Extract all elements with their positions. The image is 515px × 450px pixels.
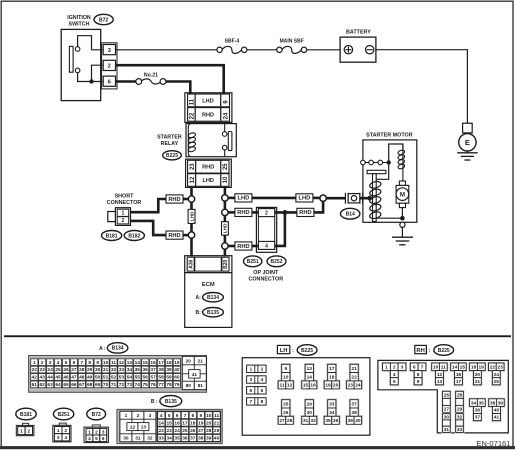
svg-text:4: 4 [57, 360, 60, 366]
connector oval B14 [341, 208, 360, 219]
svg-text:14: 14 [159, 420, 165, 426]
svg-text:24: 24 [494, 372, 500, 378]
RH pins 34-37 cluster [469, 398, 487, 422]
svg-text:5: 5 [95, 436, 98, 442]
svg-text:38: 38 [198, 436, 204, 442]
svg-text:RHD: RHD [168, 233, 180, 239]
svg-text:B252: B252 [271, 259, 283, 265]
RH pins 18-21 cluster [469, 362, 487, 386]
ignition connector housing [102, 43, 117, 89]
svg-text:74: 74 [135, 382, 141, 388]
wire: battery to ground point E [376, 50, 468, 124]
ECM connector strip [185, 256, 232, 273]
svg-text:13: 13 [437, 379, 443, 385]
svg-text:16: 16 [310, 383, 316, 389]
wire: lower RHD tag to junction [183, 234, 189, 237]
svg-text:B20: B20 [223, 260, 229, 269]
svg-text:7: 7 [249, 399, 252, 405]
LHD tag row1 left [235, 194, 252, 202]
pin 2 [103, 60, 115, 70]
wire: short conn pin2 to lower RHD (thick) [131, 221, 168, 235]
ground symbol under starter [392, 237, 413, 245]
junction circle A36 wire lower [188, 232, 194, 238]
svg-text:12: 12 [287, 383, 293, 389]
connector view label RH B225 [415, 345, 454, 356]
svg-text:31: 31 [444, 427, 450, 433]
ground point E [459, 134, 476, 151]
svg-text:44: 44 [47, 375, 53, 381]
wire: MAIN SBF to battery [307, 49, 340, 51]
wire: merge junction to B14 (thick) [326, 197, 346, 200]
svg-text:10: 10 [433, 365, 439, 371]
svg-text:STARTER MOTOR: STARTER MOTOR [366, 133, 413, 139]
svg-text:21: 21 [198, 358, 204, 364]
svg-text:28: 28 [206, 428, 212, 434]
svg-text:17: 17 [329, 366, 335, 372]
svg-text:25: 25 [182, 428, 188, 434]
relay RHD cell upper [195, 108, 221, 122]
svg-text:14: 14 [452, 365, 458, 371]
svg-text:21: 21 [351, 366, 357, 372]
svg-text:80: 80 [186, 383, 192, 389]
svg-text:5: 5 [249, 388, 252, 394]
svg-text:34: 34 [329, 410, 335, 416]
svg-text:29: 29 [307, 402, 313, 408]
connector view label B B135 [151, 396, 182, 407]
svg-text:22: 22 [159, 428, 165, 434]
svg-text:23: 23 [348, 383, 354, 389]
svg-text:25: 25 [55, 367, 61, 373]
RH pins 26-27 strip [442, 390, 452, 413]
LH pins 25-28 cluster [277, 399, 295, 425]
svg-text:29: 29 [87, 367, 93, 373]
svg-text:59: 59 [166, 375, 172, 381]
RHD tag row2 right [297, 208, 314, 216]
connector grid A B134 [29, 356, 207, 393]
svg-text:12: 12 [130, 424, 136, 430]
svg-text:11: 11 [441, 365, 446, 371]
connector oval B181 bottom [16, 408, 36, 420]
starter return spring [369, 180, 382, 219]
RH pins 30-31 strip [442, 413, 452, 434]
svg-text:2: 2 [137, 413, 140, 419]
wire: OP pin2 to RHD tag row2 right (thick) [275, 211, 298, 214]
connector view LH B225 body [242, 358, 370, 436]
svg-text:38: 38 [351, 410, 357, 416]
svg-text:20: 20 [206, 420, 212, 426]
RHD tag row2 left [235, 208, 252, 216]
wire: junction to plunger bottom [375, 217, 403, 219]
svg-text:B134: B134 [112, 346, 124, 352]
svg-text:15: 15 [143, 360, 149, 366]
ECM strip middle box [195, 257, 222, 271]
svg-text:LHD: LHD [299, 196, 311, 202]
svg-text:MAIN SBF: MAIN SBF [280, 38, 304, 44]
LH pins 21-24 cluster [345, 363, 363, 389]
svg-text:RHD: RHD [168, 197, 180, 203]
OP joint connector label [248, 270, 283, 283]
svg-text:1: 1 [249, 367, 252, 373]
LH pins 3-4 [247, 376, 267, 383]
svg-text:47: 47 [71, 375, 77, 381]
svg-text:13: 13 [307, 366, 313, 372]
wire: RHD tag2 up to merge junction [314, 201, 323, 212]
wire: RHD tag to OP joint pin 4 [252, 245, 259, 248]
svg-text:31: 31 [135, 436, 141, 442]
svg-text:56: 56 [143, 375, 149, 381]
svg-text:55: 55 [135, 375, 141, 381]
connector view B251 [53, 423, 71, 442]
svg-text:68: 68 [87, 382, 93, 388]
svg-text:RELAY: RELAY [161, 141, 179, 147]
wire: row3 junction to RHD tag (thick) [228, 245, 236, 248]
svg-text:15: 15 [167, 420, 173, 426]
connector oval B181 [102, 231, 122, 241]
svg-text:46: 46 [63, 375, 69, 381]
wire: B14 into starter (thick) [360, 197, 369, 200]
junction in ignition switch [89, 79, 93, 83]
fuse No.21 [136, 73, 166, 85]
svg-text:19: 19 [198, 420, 204, 426]
svg-text:79: 79 [174, 382, 180, 388]
svg-text:2: 2 [108, 64, 111, 70]
junction dot inside starter [367, 196, 372, 201]
RHD tag upper-left [166, 195, 183, 203]
svg-text:28: 28 [457, 393, 463, 399]
svg-text:69: 69 [95, 382, 101, 388]
svg-text:24: 24 [355, 383, 361, 389]
connector view RH B225 body (L-shape) [378, 360, 508, 433]
svg-text:LHD: LHD [202, 178, 214, 184]
svg-text:A :: A : [99, 346, 106, 352]
svg-text:6: 6 [261, 388, 264, 394]
svg-text:13: 13 [127, 360, 133, 366]
relay LHD cell lower [196, 174, 221, 187]
svg-text:4: 4 [88, 436, 91, 442]
svg-text:25: 25 [283, 402, 289, 408]
relay pin 10 [221, 174, 229, 187]
svg-text:36: 36 [143, 367, 149, 373]
svg-text:45: 45 [55, 375, 61, 381]
battery BAT1 [340, 37, 376, 62]
svg-text:B251: B251 [58, 412, 70, 418]
svg-text:57: 57 [150, 375, 156, 381]
svg-text:16: 16 [174, 420, 180, 426]
svg-text:43: 43 [40, 375, 46, 381]
svg-text:17: 17 [158, 360, 164, 366]
svg-text:2: 2 [41, 360, 44, 366]
connector oval B251 bottom [53, 408, 73, 420]
svg-text:2: 2 [64, 428, 67, 434]
RH pins 6-9 cluster [409, 362, 427, 386]
svg-text:28: 28 [79, 367, 85, 373]
svg-text:24: 24 [174, 428, 180, 434]
svg-text:23: 23 [40, 367, 46, 373]
svg-text:23: 23 [190, 163, 196, 170]
svg-text:6: 6 [102, 436, 105, 442]
svg-text:49: 49 [87, 375, 93, 381]
svg-text:LHD: LHD [223, 223, 229, 233]
svg-text:A:: A: [196, 295, 202, 301]
svg-text:38: 38 [158, 367, 164, 373]
ignition switch contact terminal upper [75, 47, 80, 52]
relay coil [188, 124, 190, 157]
ignition switch contact terminal lower [75, 68, 80, 73]
svg-text:35: 35 [325, 418, 331, 424]
svg-text:B225: B225 [166, 153, 178, 159]
connector oval B72 bottom [87, 408, 106, 420]
svg-text:62: 62 [40, 382, 46, 388]
svg-text:B225: B225 [438, 348, 450, 354]
svg-text:B134: B134 [207, 295, 219, 301]
svg-text:RHD: RHD [299, 210, 311, 216]
svg-text:ECM: ECM [202, 282, 215, 288]
bottom junction dot in starter [400, 216, 405, 221]
svg-text:8: 8 [261, 399, 264, 405]
svg-text:18: 18 [329, 375, 335, 381]
wire: SBF-4 to MAIN SBF [247, 49, 277, 51]
svg-text:18: 18 [166, 360, 172, 366]
svg-text:SWITCH: SWITCH [69, 22, 90, 28]
svg-text:14: 14 [135, 360, 141, 366]
svg-text:39: 39 [498, 400, 504, 406]
svg-text:CONNECTOR: CONNECTOR [248, 277, 283, 283]
svg-text:11: 11 [279, 383, 284, 389]
svg-text:1: 1 [33, 360, 36, 366]
svg-text:2: 2 [261, 367, 264, 373]
svg-text:30: 30 [307, 410, 313, 416]
RH pins 28-29 strip [455, 390, 465, 413]
svg-text:15: 15 [303, 383, 309, 389]
svg-text:26: 26 [190, 428, 196, 434]
relay pin 25 [221, 160, 229, 173]
svg-text:LH: LH [280, 348, 288, 354]
section divider line [4, 335, 511, 337]
ECM pin B20 [222, 257, 229, 271]
relay lower connector housing [186, 159, 232, 187]
RHD tag lower-left [166, 231, 183, 239]
ignition switch contact bar [69, 46, 73, 72]
inline connector B14 symbol [345, 193, 362, 204]
wire: No.21 to relay pin 11 (thick) [166, 82, 191, 95]
RH pins 38-41 cluster [488, 398, 506, 422]
svg-text:14: 14 [307, 375, 313, 381]
connector view B72 [84, 425, 108, 443]
svg-text:11: 11 [111, 360, 116, 366]
pin 6 [103, 76, 115, 86]
svg-text:3: 3 [401, 365, 404, 371]
svg-text:5: 5 [65, 360, 68, 366]
connector view label A B134 [99, 343, 128, 353]
svg-text:26: 26 [444, 393, 450, 399]
svg-text:24: 24 [223, 112, 229, 119]
svg-text:42: 42 [32, 375, 38, 381]
svg-text:12: 12 [190, 176, 196, 183]
connector oval B182 [124, 231, 144, 241]
relay RHD cell lower [196, 160, 221, 173]
relay pin 9 [221, 94, 230, 107]
svg-text:67: 67 [79, 382, 85, 388]
ECM pin A36 [187, 257, 194, 271]
svg-text:9: 9 [96, 360, 99, 366]
svg-text:1: 1 [57, 428, 60, 434]
svg-text:21: 21 [214, 420, 220, 426]
svg-text:1: 1 [20, 428, 23, 434]
svg-text:20: 20 [186, 358, 192, 364]
svg-text:17: 17 [182, 420, 188, 426]
svg-text:12: 12 [437, 372, 443, 378]
RH pins 14-17 cluster [450, 362, 468, 386]
svg-text:24: 24 [47, 367, 53, 373]
starter solenoid coil [402, 144, 404, 181]
svg-text:4: 4 [261, 377, 264, 383]
wire: RHD tag to OP joint pin 2 [252, 211, 259, 214]
ECM U1 body [185, 273, 232, 328]
LHD tag row1 right [296, 194, 313, 202]
pin 3 [103, 45, 115, 55]
svg-text:48: 48 [79, 375, 85, 381]
connector oval B72 [94, 14, 113, 24]
fuse MAIN SBF [277, 38, 307, 53]
svg-text:9: 9 [199, 413, 202, 419]
RH pins 22-25 cluster [487, 362, 505, 386]
svg-text:3: 3 [249, 377, 252, 383]
svg-text:26: 26 [283, 410, 289, 416]
svg-text:53: 53 [119, 375, 125, 381]
wire: motor to bottom junction [401, 208, 403, 219]
wire: switch dot down to plunger shaft [376, 163, 389, 180]
svg-text:73: 73 [127, 382, 133, 388]
svg-text:54: 54 [127, 375, 133, 381]
junction dot right of OP pin 2 [283, 210, 288, 215]
svg-text:7: 7 [421, 365, 424, 371]
short connector bracket [108, 212, 116, 222]
svg-text:B:: B: [196, 310, 202, 316]
wire: upper contact to pin 3 [78, 36, 103, 50]
svg-text:61: 61 [32, 382, 38, 388]
svg-text:28: 28 [287, 418, 293, 424]
starter switch contact mid [365, 160, 373, 165]
svg-text:B182: B182 [128, 233, 140, 239]
svg-text:25: 25 [494, 379, 500, 385]
svg-text:6: 6 [73, 360, 76, 366]
svg-text:B14: B14 [346, 212, 355, 218]
wire: relay pin 12 down to ECM A36 (thick) [190, 187, 193, 256]
svg-text:33: 33 [457, 427, 463, 433]
svg-text:IGNITION: IGNITION [67, 15, 91, 21]
wire: row1 junction to LHD tag (thick) [228, 197, 236, 200]
starter plunger top bar [367, 170, 386, 173]
svg-text:36: 36 [475, 408, 481, 414]
wire: junction up to pin 2 [92, 65, 103, 81]
wire: starter to ground [401, 227, 403, 237]
ignition switch label [67, 15, 91, 28]
LH pins 37-40 cluster [345, 399, 363, 425]
svg-text:E: E [465, 138, 470, 147]
svg-text:12: 12 [119, 360, 125, 366]
ECM connector A label [196, 293, 224, 302]
svg-text:SBF-4: SBF-4 [225, 38, 240, 44]
svg-text:B72: B72 [99, 17, 108, 23]
svg-text:37: 37 [351, 402, 357, 408]
svg-text:9: 9 [417, 379, 420, 385]
svg-text:36: 36 [333, 418, 339, 424]
svg-text:27: 27 [198, 428, 204, 434]
svg-text:LHD: LHD [238, 196, 250, 202]
svg-text:3: 3 [57, 435, 60, 441]
svg-text:20: 20 [333, 383, 339, 389]
svg-text:RHD: RHD [202, 165, 214, 171]
svg-text:27: 27 [444, 407, 450, 413]
wire: lower contact to pin 6 [78, 73, 103, 82]
svg-text:34: 34 [127, 367, 133, 373]
svg-text:B135: B135 [207, 310, 219, 316]
svg-text:35: 35 [479, 400, 485, 406]
svg-text:32: 32 [147, 436, 153, 442]
svg-text:8: 8 [417, 372, 420, 378]
svg-text:3: 3 [49, 360, 52, 366]
svg-text:35: 35 [135, 367, 141, 373]
svg-text:18: 18 [190, 420, 196, 426]
starter switch junction dot [383, 160, 391, 164]
svg-text:7: 7 [184, 413, 187, 419]
wire: LHD tag2 to merge junction [313, 197, 320, 200]
relay pin 23 [188, 160, 196, 173]
svg-text:29: 29 [457, 407, 463, 413]
svg-text:41: 41 [494, 415, 500, 421]
RHD tag row3 [235, 242, 252, 250]
svg-text:2: 2 [122, 218, 125, 224]
svg-text:4: 4 [265, 243, 268, 249]
svg-text:27: 27 [279, 418, 285, 424]
svg-text:19: 19 [174, 360, 180, 366]
svg-text:6: 6 [176, 413, 179, 419]
svg-text:1: 1 [122, 211, 125, 217]
svg-text:77: 77 [158, 382, 164, 388]
svg-text:BATTERY: BATTERY [346, 30, 371, 36]
svg-text:66: 66 [71, 382, 77, 388]
LHD tag on center vertical wire [222, 222, 229, 235]
svg-text:36: 36 [182, 436, 188, 442]
wire: row2 junction to RHD tag (thick) [228, 211, 236, 214]
svg-text:76: 76 [150, 382, 156, 388]
wire: pin 6 to fuse No.21 [116, 80, 137, 83]
connector view B181 [16, 423, 34, 435]
svg-text:39: 39 [206, 436, 212, 442]
svg-text:B181: B181 [106, 233, 118, 239]
svg-text:41: 41 [192, 372, 198, 378]
merge junction circle before B14 [320, 195, 326, 201]
ground symbol at E [457, 151, 477, 160]
svg-text:10: 10 [103, 360, 109, 366]
LHD tag on left vertical wire [188, 209, 195, 223]
LH pins 9-12 cluster [277, 363, 295, 389]
RH pins 32-33 strip [455, 413, 465, 434]
svg-text:10: 10 [206, 413, 212, 419]
svg-text:EN-07161: EN-07161 [476, 439, 510, 448]
starter motor armature M [396, 181, 409, 208]
short connector label [107, 193, 142, 206]
svg-text:70: 70 [103, 382, 109, 388]
junction circle B20 wire row2 [222, 209, 228, 215]
svg-text:34: 34 [167, 436, 173, 442]
svg-text:LHD: LHD [202, 98, 214, 104]
connector oval B251 [244, 256, 262, 267]
ignition switch S1 body [61, 29, 100, 100]
svg-text:LHD: LHD [189, 211, 195, 221]
svg-text:30: 30 [123, 436, 129, 442]
svg-text:OP JOINT: OP JOINT [253, 270, 279, 276]
